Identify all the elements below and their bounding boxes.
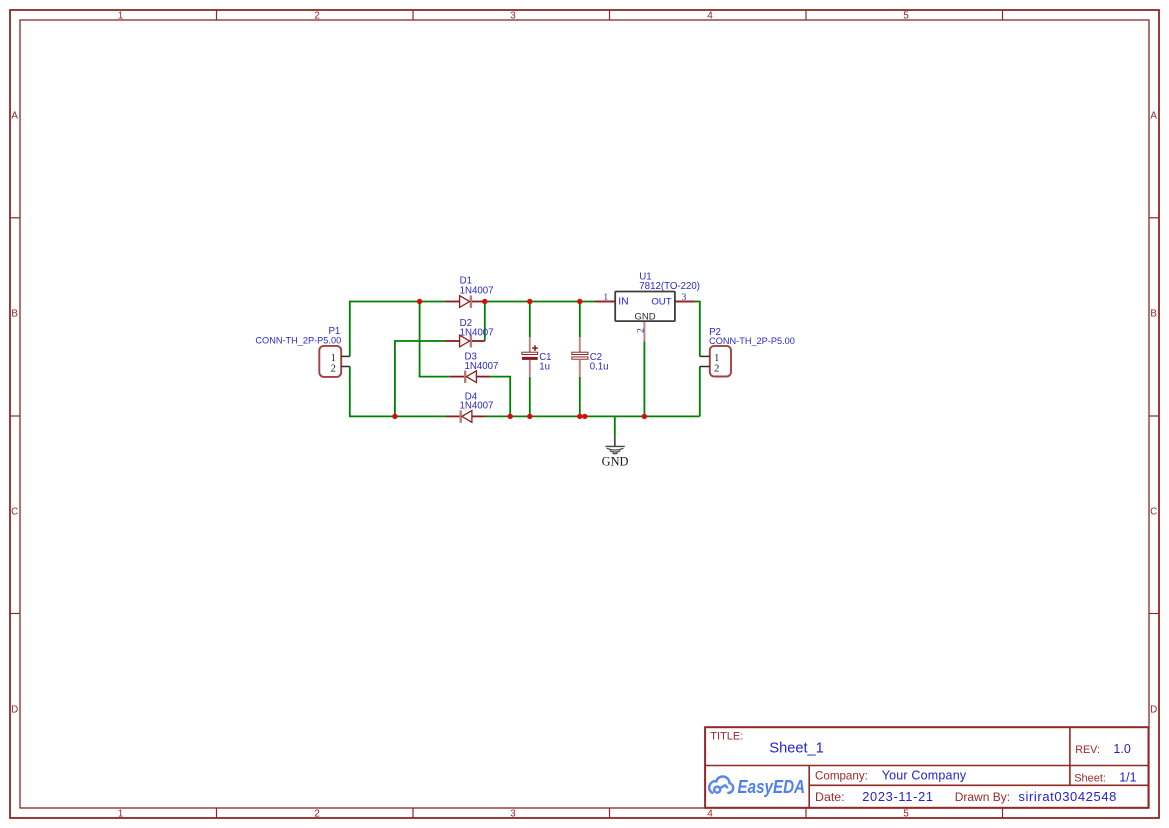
svg-text:4: 4 bbox=[707, 808, 713, 819]
svg-text:Date:: Date: bbox=[815, 790, 845, 804]
wire negative bottom rail bbox=[485, 415, 700, 417]
svg-text:Drawn By:: Drawn By: bbox=[955, 790, 1010, 804]
svg-text:1: 1 bbox=[118, 10, 124, 21]
svg-text:1/1: 1/1 bbox=[1119, 771, 1136, 785]
wire U1 OUT to P2 pin1 bbox=[695, 302, 700, 357]
diode D4 bbox=[445, 391, 493, 423]
wire C1 bottom bbox=[529, 377, 531, 417]
node C2 bottom junction bbox=[577, 414, 582, 419]
diode D2 bbox=[445, 318, 493, 348]
svg-text:2: 2 bbox=[314, 808, 320, 819]
svg-text:IN: IN bbox=[618, 297, 628, 308]
title block bbox=[705, 727, 1148, 808]
wire node AC1 drop to D3 cathode bbox=[420, 302, 450, 377]
diode D3 bbox=[450, 352, 499, 383]
svg-text:sirirat03042548: sirirat03042548 bbox=[1018, 789, 1117, 804]
connector P1 bbox=[255, 326, 349, 377]
node D1-D2 cathode junction bbox=[482, 299, 487, 304]
svg-text:3: 3 bbox=[510, 808, 516, 819]
node AC2/D2 junction bbox=[392, 414, 397, 419]
svg-text:3: 3 bbox=[682, 293, 687, 303]
svg-text:4: 4 bbox=[707, 10, 713, 21]
svg-text:B: B bbox=[1150, 308, 1157, 319]
svg-text:CONN-TH_2P-P5.00: CONN-TH_2P-P5.00 bbox=[709, 336, 795, 346]
svg-text:Sheet:: Sheet: bbox=[1074, 773, 1106, 785]
node C1 top junction bbox=[527, 299, 532, 304]
svg-text:D: D bbox=[1150, 704, 1157, 715]
wire D3 anode down to bottom rail bbox=[490, 377, 510, 417]
capacitor C1 bbox=[522, 337, 552, 377]
svg-text:2: 2 bbox=[331, 363, 336, 374]
svg-text:5: 5 bbox=[903, 10, 909, 21]
svg-text:1.0: 1.0 bbox=[1113, 742, 1130, 756]
svg-text:Sheet_1: Sheet_1 bbox=[769, 741, 823, 757]
svg-text:GND: GND bbox=[634, 311, 655, 322]
node gnd net junction bbox=[582, 414, 587, 419]
svg-text:A: A bbox=[11, 110, 18, 121]
svg-text:1: 1 bbox=[603, 293, 608, 303]
svg-text:GND: GND bbox=[602, 454, 629, 468]
svg-text:D: D bbox=[11, 704, 18, 715]
svg-text:2: 2 bbox=[714, 363, 719, 374]
svg-text:3: 3 bbox=[510, 10, 516, 21]
svg-text:1: 1 bbox=[118, 808, 124, 819]
wire P1 pin1 to top rail bbox=[350, 302, 445, 357]
svg-text:C: C bbox=[11, 506, 18, 517]
svg-text:Your Company: Your Company bbox=[882, 769, 967, 783]
svg-text:C: C bbox=[1150, 506, 1157, 517]
wire AC2 branch to D2 anode bbox=[395, 341, 445, 416]
svg-text:1N4007: 1N4007 bbox=[460, 400, 494, 411]
svg-text:0.1u: 0.1u bbox=[590, 362, 609, 373]
svg-text:1u: 1u bbox=[539, 362, 550, 373]
capacitor C2 bbox=[572, 337, 609, 377]
svg-text:1N4007: 1N4007 bbox=[460, 285, 494, 296]
svg-text:CONN-TH_2P-P5.00: CONN-TH_2P-P5.00 bbox=[255, 335, 341, 345]
node C2 top junction bbox=[577, 299, 582, 304]
wire U1 GND pin down bbox=[643, 342, 645, 417]
wire P1 pin2 to bottom rail bbox=[350, 367, 446, 417]
svg-text:1N4007: 1N4007 bbox=[460, 328, 494, 339]
svg-text:Company:: Company: bbox=[815, 770, 868, 783]
wire GND branch bbox=[614, 416, 616, 436]
junction dots bbox=[392, 299, 647, 419]
EasyEDA logo bbox=[709, 776, 733, 792]
node C1 bottom junction bbox=[527, 414, 532, 419]
wire positive rail D1 cathode to U1 IN bbox=[485, 301, 595, 303]
wire P2 pin2 to bottom rail bbox=[699, 367, 701, 417]
connector P2 bbox=[700, 327, 795, 376]
node AC1/D3 junction bbox=[417, 299, 422, 304]
wire C1 top bbox=[529, 302, 531, 338]
regulator U1 bbox=[595, 272, 700, 342]
svg-text:5: 5 bbox=[903, 808, 909, 819]
svg-text:2: 2 bbox=[636, 328, 646, 333]
svg-text:A: A bbox=[1150, 110, 1157, 121]
svg-text:OUT: OUT bbox=[651, 296, 671, 307]
svg-text:2: 2 bbox=[314, 10, 320, 21]
diode D1 bbox=[445, 276, 493, 309]
ground symbol GND bbox=[605, 436, 624, 454]
wire C2 bottom bbox=[579, 377, 581, 417]
wire C2 top bbox=[579, 302, 581, 338]
svg-text:REV:: REV: bbox=[1075, 744, 1100, 756]
node D3 anode junction bbox=[508, 414, 513, 419]
svg-text:B: B bbox=[11, 308, 18, 319]
svg-text:EasyEDA: EasyEDA bbox=[738, 777, 806, 797]
svg-text:2023-11-21: 2023-11-21 bbox=[862, 789, 934, 804]
svg-text:7812(TO-220): 7812(TO-220) bbox=[639, 281, 700, 292]
node U1 GND junction bbox=[642, 414, 647, 419]
wire D2 cathode up to positive rail bbox=[484, 302, 486, 342]
svg-text:1N4007: 1N4007 bbox=[465, 361, 499, 372]
svg-text:TITLE:: TITLE: bbox=[710, 730, 743, 742]
